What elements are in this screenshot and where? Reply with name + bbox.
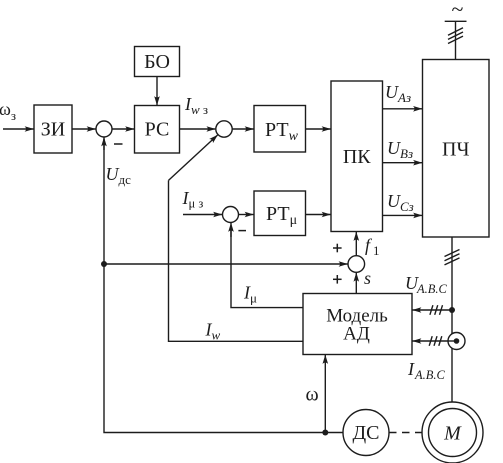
svg-text:М: М <box>443 423 462 445</box>
svg-text:UCз: UCз <box>387 191 414 214</box>
svg-text:ПК: ПК <box>343 146 371 168</box>
svg-text:Uдс: Uдс <box>106 164 132 187</box>
svg-text:БО: БО <box>144 51 170 73</box>
svg-text:Iμ: Iμ <box>243 283 257 306</box>
svg-text:f1: f1 <box>365 235 380 258</box>
svg-text:Iw з: Iw з <box>184 94 208 117</box>
svg-text:ωз: ωз <box>0 99 16 123</box>
svg-text:UA.B.C: UA.B.C <box>405 273 448 296</box>
svg-text:ω: ω <box>306 384 319 406</box>
svg-text:АД: АД <box>343 324 370 345</box>
svg-text:Iw: Iw <box>205 320 221 343</box>
svg-text:~: ~ <box>452 0 464 22</box>
svg-text:s: s <box>364 268 371 288</box>
svg-text:UBз: UBз <box>387 138 413 161</box>
svg-text:IA.B.C: IA.B.C <box>407 359 446 382</box>
svg-text:ЗИ: ЗИ <box>41 119 65 141</box>
svg-text:РС: РС <box>145 119 170 141</box>
svg-text:UAз: UAз <box>385 82 411 105</box>
svg-text:ПЧ: ПЧ <box>442 139 469 161</box>
svg-text:ДС: ДС <box>353 422 380 444</box>
svg-text:Iμ з: Iμ з <box>182 188 204 211</box>
